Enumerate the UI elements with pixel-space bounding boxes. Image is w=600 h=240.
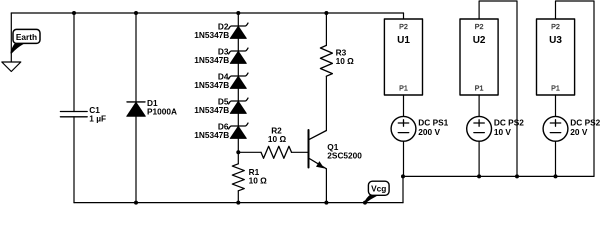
- label D3 value: [194, 47, 229, 65]
- wire PS2 to right rail: [478, 141, 480, 176]
- component U3 box: [537, 19, 575, 95]
- svg-text:P2: P2: [475, 22, 484, 31]
- svg-text:1N5347B: 1N5347B: [194, 105, 229, 115]
- svg-text:2SC5200: 2SC5200: [327, 151, 362, 161]
- svg-text:200 V: 200 V: [418, 127, 440, 137]
- wire zener column top: [237, 13, 239, 26]
- svg-text:U1: U1: [397, 35, 410, 46]
- wire D1 column bottom: [135, 116, 137, 202]
- source DC PS1: [391, 116, 416, 141]
- svg-text:DC PS1: DC PS1: [418, 117, 448, 127]
- label D1 value: [147, 98, 177, 117]
- wire U3 top loop: [556, 1, 595, 176]
- wire C1 column top: [73, 13, 75, 112]
- svg-text:20 V: 20 V: [570, 127, 588, 137]
- capacitor C1: [60, 112, 87, 117]
- ground earth symbol: [2, 62, 21, 72]
- wire U3 bottom to PS3: [555, 95, 557, 116]
- resistor R2: [238, 146, 308, 158]
- node Vcg callout: [365, 181, 389, 203]
- wire left drop to earth: [10, 13, 12, 62]
- svg-text:P2: P2: [399, 22, 408, 31]
- junction on top rail at zener column: [236, 11, 240, 15]
- label D5 value: [194, 97, 229, 115]
- svg-text:1N5347B: 1N5347B: [194, 55, 229, 65]
- wire U2 bottom to PS2: [478, 95, 480, 116]
- wire D6 to node: [237, 138, 239, 152]
- wire D2-D3: [237, 38, 239, 51]
- label C1 value: [89, 105, 106, 124]
- junction on bottom rail at R1: [236, 201, 240, 205]
- component U1 box: [384, 19, 422, 95]
- label D4 value: [194, 72, 229, 90]
- diode D1: [127, 102, 146, 116]
- resistor R1: [232, 152, 244, 202]
- junction on top rail at D1: [134, 11, 138, 15]
- wire U1 bottom to PS1: [403, 95, 405, 116]
- zener diode D3: [229, 48, 248, 63]
- svg-text:Vcg: Vcg: [371, 183, 386, 193]
- wire C1 column bottom: [73, 117, 75, 203]
- node junction zener/R1/R2: [236, 150, 240, 154]
- wire bottom rail riser to right rail: [402, 176, 404, 202]
- svg-text:10 Ω: 10 Ω: [268, 134, 287, 144]
- svg-text:P1: P1: [551, 84, 560, 93]
- svg-text:10 V: 10 V: [494, 127, 512, 137]
- svg-text:10 Ω: 10 Ω: [336, 56, 355, 66]
- junction right rail at PS2: [477, 174, 481, 178]
- junction on bottom rail at D1: [134, 201, 138, 205]
- zener diode D5: [229, 98, 248, 113]
- node Earth callout: [11, 29, 40, 52]
- wire D4-D5: [237, 88, 239, 101]
- label R1 value: [249, 167, 268, 186]
- junction on top rail at C1: [72, 11, 76, 15]
- svg-text:DC PS2: DC PS2: [570, 117, 600, 127]
- wire U2 top loop: [479, 1, 517, 176]
- wire right rail: [403, 175, 594, 177]
- label DC PS2 value: [494, 117, 524, 137]
- wire top rail: [11, 12, 403, 14]
- label R2 value: [268, 125, 287, 144]
- junction right rail at U2 loop: [515, 174, 519, 178]
- junction right rail at PS1: [401, 174, 405, 178]
- junction on top rail at R3: [324, 11, 328, 15]
- source DC PS2: [467, 116, 492, 141]
- svg-text:1 µF: 1 µF: [89, 113, 106, 123]
- svg-text:U3: U3: [549, 35, 562, 46]
- svg-text:DC PS2: DC PS2: [494, 117, 524, 127]
- svg-text:1N5347B: 1N5347B: [194, 80, 229, 90]
- svg-text:U2: U2: [473, 35, 486, 46]
- zener diode D4: [229, 73, 248, 88]
- zener diode D2: [229, 23, 248, 38]
- source DC PS3: [543, 116, 568, 141]
- resistor R3: [320, 13, 332, 131]
- wire Q1 emitter down: [325, 169, 327, 203]
- wire D1 column top: [135, 13, 137, 102]
- junction right rail at PS3: [554, 174, 558, 178]
- wire D3-D4: [237, 63, 239, 76]
- svg-text:1N5347B: 1N5347B: [194, 30, 229, 40]
- zener diode D6: [229, 123, 248, 138]
- svg-text:P1: P1: [399, 84, 408, 93]
- junction on bottom rail at Q1 emitter: [324, 201, 328, 205]
- svg-text:10 Ω: 10 Ω: [249, 175, 268, 185]
- wire PS3 to right rail: [555, 141, 557, 176]
- label D2 value: [194, 22, 229, 40]
- label Q1 value: [327, 142, 362, 161]
- svg-text:P1000A: P1000A: [147, 107, 177, 117]
- label DC PS1 value: [418, 117, 448, 137]
- svg-text:P1: P1: [475, 84, 484, 93]
- svg-text:1N5347B: 1N5347B: [194, 130, 229, 140]
- label DC PS3 value: [570, 117, 600, 137]
- transistor Q1: [309, 130, 327, 169]
- junction on bottom rail at Vcg: [363, 201, 367, 205]
- svg-text:Earth: Earth: [16, 32, 37, 42]
- wire D5-D6: [237, 113, 239, 126]
- wire U1 top connection: [403, 13, 405, 19]
- svg-text:P2: P2: [551, 22, 560, 31]
- wire PS1 to right rail: [403, 141, 405, 176]
- label R3 value: [336, 48, 355, 67]
- component U2 box: [460, 19, 498, 95]
- wire bottom rail: [74, 202, 403, 204]
- label D6 value: [194, 122, 229, 140]
